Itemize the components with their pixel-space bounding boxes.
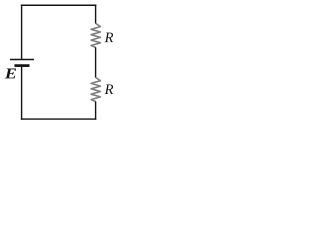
battery E bottom plate <box>14 64 29 67</box>
svg-text:R: R <box>104 82 114 98</box>
resistor R1 zigzag <box>91 23 100 47</box>
svg-text:R: R <box>104 30 114 46</box>
wire bottom <box>21 118 97 120</box>
wire top <box>21 4 97 6</box>
wire right upper <box>95 4 97 23</box>
wire left lower <box>21 66 23 120</box>
battery E top plate <box>10 59 34 61</box>
svg-text:E: E <box>4 66 17 82</box>
wire right middle <box>95 47 97 77</box>
wire right lower <box>95 101 97 119</box>
wire left upper <box>21 4 23 59</box>
resistor R2 zigzag <box>91 77 100 101</box>
